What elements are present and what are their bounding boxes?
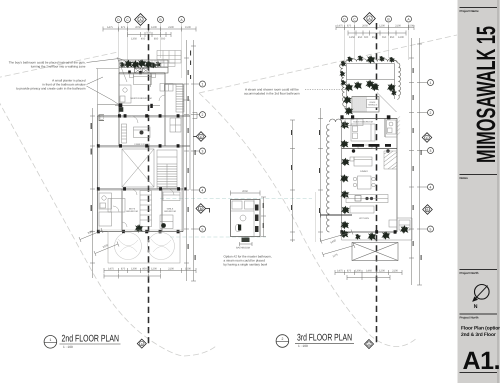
svg-text:850: 850 <box>390 36 395 39</box>
rotated dim text marks upper right <box>190 51 191 80</box>
svg-text:turning the 2nd floor into a w: turning the 2nd floor into a walking zon… <box>31 65 86 69</box>
svg-text:2050: 2050 <box>135 26 141 29</box>
top dimension line 1 <box>103 27 196 32</box>
planter strip plants <box>340 121 350 230</box>
right dim rotated labels right plan <box>413 68 422 260</box>
ladder <box>122 124 127 143</box>
TITLE-STRIP <box>458 0 500 383</box>
left planter scallop strip <box>327 119 342 232</box>
left wing edge lines <box>96 69 119 105</box>
top dimension line 2 right plan <box>348 31 406 36</box>
sofa right plan <box>350 157 372 166</box>
balcony rail ticks <box>121 60 164 68</box>
balcony plants row <box>119 59 161 69</box>
mid block outline <box>98 146 184 189</box>
bedroom label right plan <box>353 121 373 124</box>
top dimension labels 1 <box>107 26 191 29</box>
mid stairs <box>157 150 177 188</box>
svg-text:1350: 1350 <box>131 38 137 41</box>
roof garden plants <box>343 80 397 116</box>
columns row y189 <box>97 187 187 191</box>
roof garden cloud border right <box>393 61 401 100</box>
left site boundary upper dashed line <box>0 52 118 78</box>
detail bathroom outline <box>231 200 261 237</box>
sheet divider line <box>460 313 498 315</box>
leader line right <box>305 89 350 91</box>
stairs upper right corner right plan <box>384 151 397 169</box>
lower beds <box>108 192 180 229</box>
svg-text:1200: 1200 <box>151 26 157 29</box>
grid bubble D top <box>116 17 122 23</box>
top dimension labels 2 right plan <box>349 36 404 39</box>
sloped dim lower-left 1 <box>79 228 103 242</box>
svg-text:1460: 1460 <box>366 270 372 273</box>
main block top wall right plan <box>342 118 398 120</box>
dark fixture mid wall <box>150 104 153 108</box>
balcony planter box <box>119 60 168 73</box>
svg-text:875: 875 <box>121 26 126 29</box>
outdoor kitchen terrace right plan <box>342 218 413 240</box>
svg-text:1350: 1350 <box>349 36 355 39</box>
ANNOTATIONS <box>9 59 350 105</box>
roof ridge diagonal <box>377 93 397 113</box>
svg-text:875: 875 <box>121 268 126 271</box>
svg-text:2100: 2100 <box>392 270 398 273</box>
grid bubble 4 right <box>196 187 206 193</box>
svg-text:Project North: Project North <box>460 316 479 320</box>
terrace plants right plan <box>340 225 409 241</box>
DETAIL-DRAWING <box>224 190 272 267</box>
2nd floor plan scale <box>63 345 73 349</box>
grid bubble D top right plan <box>342 16 348 22</box>
3rd floor plan scale <box>298 344 308 348</box>
family room label <box>135 143 150 146</box>
bottom divider line <box>460 372 498 374</box>
svg-text:5: 5 <box>202 227 204 231</box>
leader line left 1 <box>87 59 126 63</box>
entry wall upper-left <box>98 105 120 117</box>
balcony angled edge <box>117 57 127 82</box>
svg-text:B: B <box>426 208 428 212</box>
svg-text:1200: 1200 <box>379 270 385 273</box>
svg-text:N: N <box>474 304 478 310</box>
svg-text:1 : 100: 1 : 100 <box>63 345 73 349</box>
svg-text:500: 500 <box>146 32 151 35</box>
main block side walls right plan <box>385 119 397 233</box>
detail note text <box>224 255 272 267</box>
skylight X panel right plan <box>352 243 398 261</box>
roof stair treads <box>352 97 379 113</box>
detail fixtures <box>231 200 255 237</box>
lower block outline <box>98 189 184 232</box>
svg-text:1200: 1200 <box>398 36 404 39</box>
svg-text:1500: 1500 <box>185 268 191 271</box>
svg-text:accommodated in the 3rd floor: accommodated in the 3rd floor bathroom <box>244 92 300 96</box>
3rd floor plan underline <box>295 342 354 344</box>
detail right dim <box>261 197 266 237</box>
svg-text:2100: 2100 <box>395 25 401 28</box>
svg-text:1475: 1475 <box>108 268 114 271</box>
section diamond C right <box>193 132 206 142</box>
upper block outline <box>119 73 183 116</box>
notes divider line <box>460 174 498 176</box>
svg-text:KITCHEN: KITCHEN <box>359 217 369 220</box>
wall row y116 <box>98 115 191 117</box>
bedroom bed right plan <box>351 124 375 148</box>
grid bubble B top right plan <box>386 16 392 22</box>
svg-text:3: 3 <box>430 149 432 153</box>
dark fixture upper-left <box>119 103 124 111</box>
right site boundary lower dashed curve <box>199 93 417 347</box>
svg-text:MIMOSAWALK 15: MIMOSAWALK 15 <box>471 26 500 163</box>
svg-text:1 : 100: 1 : 100 <box>298 344 308 348</box>
svg-text:BEDROOM: BEDROOM <box>126 210 137 213</box>
svg-text:5: 5 <box>430 227 432 231</box>
svg-text:Project North: Project North <box>460 271 479 275</box>
wall row y146 <box>98 145 191 147</box>
wall row y231 <box>98 231 184 233</box>
svg-text:by having a single sanitary bo: by having a single sanitary bowl <box>224 263 268 267</box>
bottom dim line 1 <box>104 268 196 273</box>
grid bubble 3 right <box>196 148 206 154</box>
north arrow symbol <box>472 285 489 311</box>
grid bubble 1 right plan <box>422 80 434 86</box>
svg-text:B: B <box>200 207 202 211</box>
note text left 2 <box>16 79 86 91</box>
svg-text:500: 500 <box>364 36 369 39</box>
columns row y231 <box>97 230 180 234</box>
columns row y146 <box>97 144 180 148</box>
svg-text:BEDROOM: BEDROOM <box>164 210 175 213</box>
left dim rotated labels right plan <box>291 130 320 213</box>
top dimension labels 2 <box>131 32 166 41</box>
terrace plant <box>134 224 143 233</box>
svg-text:Project Name: Project Name <box>460 9 480 13</box>
master bed <box>130 74 156 85</box>
living label right plan <box>360 170 368 173</box>
right site boundary upper dashed line <box>199 35 457 93</box>
svg-text:MASTER BEDROOM: MASTER BEDROOM <box>130 97 151 100</box>
kitchen label right plan <box>359 217 369 220</box>
project name divider line <box>460 7 498 9</box>
svg-text:1300: 1300 <box>355 270 361 273</box>
detail top dim line <box>231 190 261 196</box>
middle block outline <box>98 116 184 146</box>
bottom dim line 2 right plan <box>347 275 390 280</box>
left site boundary lower dashed curve <box>0 100 216 356</box>
bottom dim line 2 <box>104 274 161 279</box>
sink fixture upper-left <box>99 115 104 121</box>
svg-text:550: 550 <box>161 38 166 41</box>
upper ladder stair <box>176 84 184 112</box>
2nd floor plan title bubble <box>44 336 57 349</box>
project north label <box>460 271 479 275</box>
svg-text:4: 4 <box>202 188 204 192</box>
right dim column 1 <box>184 40 189 281</box>
svg-text:1: 1 <box>430 81 432 85</box>
roof garden cloud border left <box>340 61 347 110</box>
svg-text:550: 550 <box>382 36 387 39</box>
RIGHT-PLAN <box>290 13 434 349</box>
bathroom lower <box>99 193 112 226</box>
section diamond A bottom right plan <box>365 340 374 349</box>
grid bubble C top right plan <box>352 16 358 22</box>
grid bubble 1 right <box>196 81 206 87</box>
teal match line upper <box>160 198 312 200</box>
closet row top right plan <box>345 119 363 126</box>
section diamond B right plan <box>423 205 433 215</box>
section cut heavy dashed line <box>148 24 150 344</box>
sloped dims right plan <box>320 230 355 259</box>
wardrobe mid <box>170 118 181 132</box>
svg-text:450: 450 <box>141 38 146 41</box>
svg-text:1: 1 <box>49 338 51 342</box>
master bedroom label <box>130 97 151 100</box>
project name label <box>460 9 480 13</box>
grid bubble C top <box>125 17 131 23</box>
teal match line lower <box>170 236 266 238</box>
window frame lines upper <box>98 75 184 232</box>
svg-text:875: 875 <box>347 25 352 28</box>
top dimension labels 1 right plan <box>337 25 414 28</box>
upper wardrobe <box>160 84 173 92</box>
section diamond A top <box>135 14 147 26</box>
columns row y116 <box>118 114 180 118</box>
detail door fill <box>238 225 241 231</box>
section cut heavy dashed line right plan <box>376 23 378 344</box>
svg-text:2: 2 <box>281 337 283 341</box>
grid bubble 5 right <box>196 226 206 232</box>
svg-text:875: 875 <box>347 270 352 273</box>
roof garden top edge plants <box>339 55 395 86</box>
svg-text:A1.3: A1.3 <box>463 347 500 375</box>
kitchen counter right plan <box>346 195 388 214</box>
svg-text:DINING: DINING <box>360 170 368 173</box>
svg-text:450: 450 <box>358 36 363 39</box>
grid bubble 3 right plan <box>422 148 434 154</box>
TITLE-BLOCKS <box>44 333 354 349</box>
detail lower box <box>240 238 253 247</box>
planter width dim line <box>320 213 352 218</box>
svg-text:TERRACE: TERRACE <box>368 104 378 107</box>
grid bubble 5 right plan <box>422 226 434 232</box>
dark fixture lower <box>161 223 166 228</box>
3rd floor plan title bubble <box>276 335 289 348</box>
svg-text:ROOF: ROOF <box>370 101 377 104</box>
roof garden cloud border top <box>346 59 397 62</box>
svg-text:A: A <box>141 342 143 346</box>
interior door arcs <box>113 95 174 227</box>
right dim column 2 <box>191 40 196 281</box>
svg-text:Floor Plan (optional): Floor Plan (optional) <box>461 326 500 332</box>
bottom dim labels 1 <box>108 268 191 271</box>
bottom dim line 1 right plan <box>335 270 402 275</box>
columns top wall right plan <box>340 115 390 119</box>
svg-text:1500: 1500 <box>185 26 191 29</box>
bed wall stub <box>115 73 160 105</box>
section diamond A bottom <box>137 339 146 348</box>
notes label <box>460 176 469 180</box>
wall row y232 right plan <box>342 231 398 233</box>
top dimension line 2 <box>128 32 172 37</box>
section diamond B right <box>196 204 210 214</box>
columns balcony wall <box>128 71 142 75</box>
columns row y148 right plan <box>352 144 391 153</box>
grid bubble 2 right plan <box>422 110 434 116</box>
svg-text:Notes: Notes <box>460 176 469 180</box>
svg-text:3rd FLOOR PLAN: 3rd FLOOR PLAN <box>297 333 352 344</box>
right dim rotated labels <box>188 70 196 260</box>
svg-text:2100: 2100 <box>168 268 174 271</box>
svg-text:850: 850 <box>154 38 159 41</box>
wall row y148 right plan <box>342 148 398 150</box>
svg-text:to provide privacy and create: to provide privacy and create calm in th… <box>16 87 86 91</box>
svg-text:800: 800 <box>142 268 147 271</box>
svg-text:4: 4 <box>430 185 432 189</box>
left dim column right plan <box>290 120 295 242</box>
title block background strip <box>458 0 500 383</box>
grid bubble B top <box>158 17 164 23</box>
note text right <box>244 88 300 96</box>
upper right terrace pavers <box>157 51 181 67</box>
svg-text:2050: 2050 <box>362 25 368 28</box>
svg-text:1475: 1475 <box>337 270 343 273</box>
left dim rotated labels <box>91 123 92 211</box>
svg-text:A: A <box>368 342 370 346</box>
sheet label <box>460 316 479 320</box>
void room with X brace <box>122 149 154 187</box>
roof terrace label box <box>367 100 379 108</box>
svg-text:2nd FLOOR PLAN: 2nd FLOOR PLAN <box>62 333 120 344</box>
svg-text:GUEST BEDROOM: GUEST BEDROOM <box>353 121 373 124</box>
detail dark cells right <box>255 205 259 233</box>
LEFT-PLAN <box>79 14 210 349</box>
right wall hatch band <box>397 116 400 135</box>
section diamond C right plan <box>422 133 432 143</box>
left dim column 2 right plan <box>318 108 323 242</box>
right wing corridor walls <box>183 100 197 190</box>
project name MIMOSAWALK 15 vertical <box>471 26 500 163</box>
terrace outline <box>108 232 180 264</box>
detail caption label <box>236 247 250 250</box>
grid bubble A top right plan <box>406 16 412 22</box>
section diamond A top right plan <box>364 13 376 25</box>
project north divider line <box>460 269 498 271</box>
study desk <box>134 127 151 138</box>
wall row y189 <box>98 188 184 190</box>
top dimension line 1 right plan <box>336 25 414 30</box>
svg-text:1500: 1500 <box>408 25 414 28</box>
grid bubble extension lines top right plan <box>345 23 409 60</box>
right dim column 2 right plan <box>417 38 422 285</box>
2nd floor plan title text <box>62 333 120 344</box>
grid bubble 4 right plan <box>422 184 434 190</box>
note text left 1 <box>9 61 86 69</box>
svg-text:1200: 1200 <box>151 268 157 271</box>
svg-text:2100: 2100 <box>168 26 174 29</box>
svg-text:1200: 1200 <box>379 25 385 28</box>
bedroom labels lower <box>126 208 175 214</box>
left dim column <box>90 108 95 278</box>
svg-text:1475: 1475 <box>107 26 113 29</box>
grid bubble A top <box>179 17 185 23</box>
grid bubble extension lines top <box>119 23 182 78</box>
roof garden outline <box>347 64 395 116</box>
central wardrobe lower <box>140 191 152 227</box>
sheet number A1.3 <box>463 347 500 375</box>
svg-text:3: 3 <box>202 149 204 153</box>
svg-text:1: 1 <box>202 82 204 86</box>
grid bubble 2 right <box>196 112 206 118</box>
bottom dim labels right plan <box>337 270 398 273</box>
bathroom block upper <box>119 85 131 103</box>
svg-text:2: 2 <box>430 111 432 115</box>
3rd floor plan title text <box>297 333 352 344</box>
left extension line right plan <box>315 192 317 242</box>
svg-text:2nd & 3rd Floor: 2nd & 3rd Floor <box>461 332 496 338</box>
sheet title text <box>461 326 500 338</box>
svg-text:1300: 1300 <box>131 268 137 271</box>
SITE-LINES <box>0 35 457 356</box>
2nd floor plan underline <box>60 343 121 345</box>
svg-text:BATHROOM: BATHROOM <box>236 247 250 250</box>
svg-text:1475: 1475 <box>337 25 343 28</box>
dining table right plan <box>353 176 375 189</box>
right dim column 1 right plan <box>409 38 414 285</box>
bathroom top right plan <box>385 120 397 137</box>
columns row y232 right plan <box>340 230 396 234</box>
svg-text:2060: 2060 <box>242 190 248 193</box>
terrace trees <box>115 233 175 260</box>
leader line left 2 <box>87 77 119 104</box>
svg-text:2: 2 <box>202 113 204 117</box>
sloped dim lower-left 2 <box>94 242 119 257</box>
title block right border line <box>497 0 499 383</box>
